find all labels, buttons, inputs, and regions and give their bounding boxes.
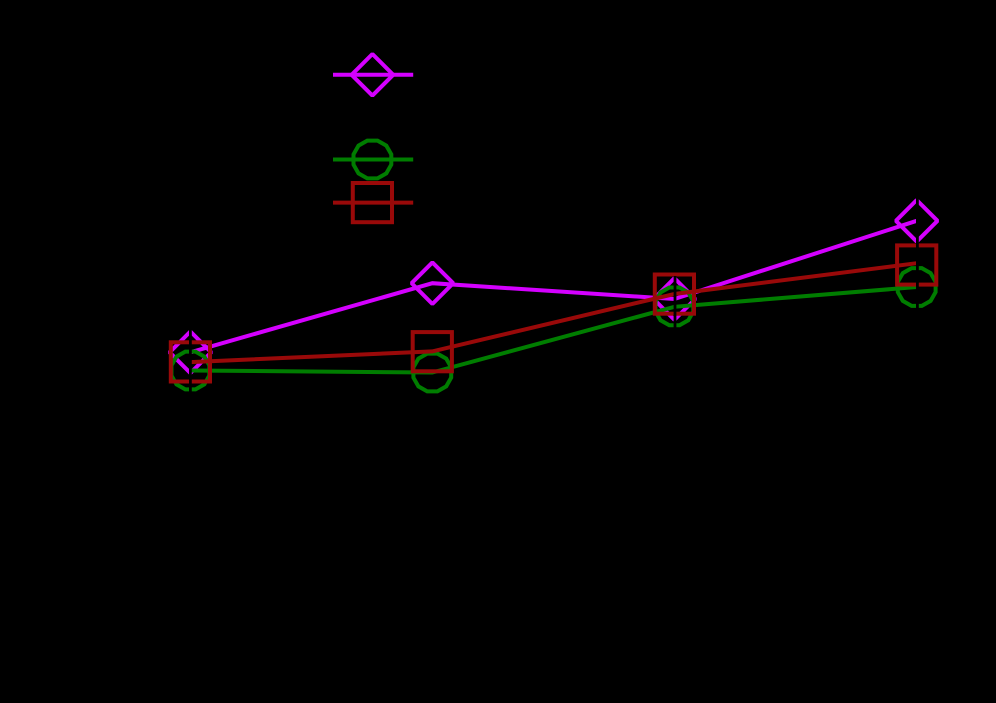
green data line — [190, 287, 916, 373]
legend magenta line sample — [333, 73, 413, 77]
red square markers — [171, 245, 937, 381]
legend green circle — [354, 141, 392, 179]
legend red square — [353, 183, 392, 222]
legend magenta diamond — [352, 54, 394, 96]
legend red line sample — [333, 201, 413, 205]
magenta data line — [190, 221, 916, 352]
legend green line sample — [333, 158, 413, 162]
magenta diamond markers — [170, 200, 938, 373]
red data line — [190, 263, 916, 362]
green circle markers — [172, 268, 936, 391]
black error bars drawn on top — [190, 196, 917, 392]
